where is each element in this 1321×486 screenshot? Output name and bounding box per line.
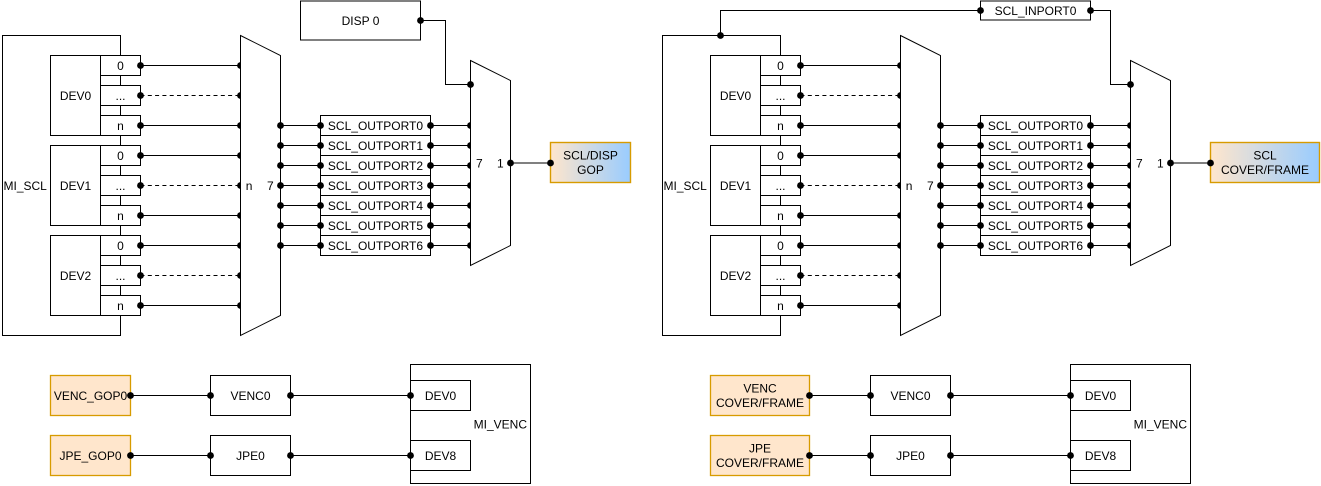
- wire MUX1 to SCL_OUTPORT4 (R): [937, 202, 984, 209]
- svg-text:SCL_OUTPORT4: SCL_OUTPORT4: [328, 199, 423, 213]
- wire SCL_OUTPORT2 to MUX2 (L): [427, 162, 474, 169]
- wire SCL_OUTPORT4 to MUX2 (R): [1087, 202, 1134, 209]
- port DEV0.... (L): [101, 86, 141, 106]
- wire DEV1.... to MUX1 (L): [137, 182, 244, 189]
- block DEV1 (R): [711, 146, 761, 226]
- block SCL_OUTPORT2 (R): [981, 156, 1091, 176]
- block SCL_OUTPORT2 (L): [321, 156, 431, 176]
- svg-text:7: 7: [1136, 156, 1143, 170]
- block VENC0 (R): [871, 376, 951, 416]
- svg-text:1: 1: [1157, 156, 1164, 170]
- wire DEV0.... to MUX1 (L): [137, 92, 244, 99]
- port DEV2.0 (L): [101, 236, 141, 256]
- block SCL_OUTPORT1 (L): [321, 136, 431, 156]
- wire MUX1 to SCL_OUTPORT3 (L): [277, 182, 324, 189]
- wire MUX1 to SCL_OUTPORT1 (L): [277, 142, 324, 149]
- svg-text:DEV8: DEV8: [425, 449, 457, 463]
- svg-text:7: 7: [267, 179, 274, 193]
- block SCL_OUTPORT6 (R): [981, 236, 1091, 256]
- wire DEV2.... to MUX1 (R): [797, 272, 904, 279]
- svg-text:SCL_OUTPORT2: SCL_OUTPORT2: [328, 159, 423, 173]
- block MI_VENC DEV0 (R): [1071, 381, 1131, 411]
- port DEV1.0 (R): [761, 146, 801, 166]
- svg-text:0: 0: [777, 59, 784, 73]
- svg-text:...: ...: [775, 269, 785, 283]
- input box VENC_GOP0: [51, 376, 131, 416]
- wire VENC0 to DEV0 (L): [287, 392, 414, 399]
- port DEV1.n (L): [101, 206, 141, 226]
- svg-text:...: ...: [115, 179, 125, 193]
- svg-text:SCL_OUTPORT6: SCL_OUTPORT6: [988, 239, 1083, 253]
- svg-text:...: ...: [775, 179, 785, 193]
- port DEV2.0 (R): [761, 236, 801, 256]
- block MI_VENC DEV8 (R): [1071, 441, 1131, 471]
- svg-text:SCL_OUTPORT0: SCL_OUTPORT0: [988, 119, 1083, 133]
- input box VENC COVER/FRAME: [711, 376, 810, 416]
- svg-text:SCL_OUTPORT0: SCL_OUTPORT0: [328, 119, 423, 133]
- svg-text:JPE: JPE: [749, 442, 771, 456]
- svg-text:SCL_OUTPORT2: SCL_OUTPORT2: [988, 159, 1083, 173]
- wire MUX2 to SCL/DISP GOP: [507, 160, 554, 167]
- output box SCL/DISP GOP: [551, 143, 631, 183]
- svg-text:n: n: [906, 179, 913, 193]
- wire DEV2.n to MUX1 (L): [137, 302, 244, 309]
- block SCL_INPORT0: [981, 1, 1091, 20]
- wire DEV0.n to MUX1 (R): [797, 122, 904, 129]
- svg-text:SCL_OUTPORT3: SCL_OUTPORT3: [988, 179, 1083, 193]
- svg-text:n: n: [777, 209, 784, 223]
- wire MUX1 to SCL_OUTPORT6 (R): [937, 242, 984, 249]
- wire DISP 0 to MUX2: [417, 17, 474, 88]
- svg-text:DEV0: DEV0: [425, 389, 457, 403]
- wire SCL_OUTPORT6 to MUX2 (L): [427, 242, 474, 249]
- wire MUX2 to SCL COVER/FRAME: [1167, 160, 1214, 167]
- port DEV2.... (L): [101, 266, 141, 286]
- block SCL_OUTPORT0 (L): [321, 116, 431, 136]
- wire VENC input to VENC0 (R): [806, 392, 874, 399]
- svg-text:n: n: [117, 299, 124, 313]
- block JPE0 (R): [871, 436, 951, 476]
- wire DEV0.0 to MUX1 (R): [797, 62, 904, 69]
- wire SCL_OUTPORT1 to MUX2 (L): [427, 142, 474, 149]
- block VENC0 (L): [211, 376, 291, 416]
- port DEV0.0 (L): [101, 56, 141, 76]
- wire DEV1.n to MUX1 (L): [137, 212, 244, 219]
- wire MUX1 to SCL_OUTPORT2 (R): [937, 162, 984, 169]
- wire SCL_OUTPORT3 to MUX2 (L): [427, 182, 474, 189]
- wire JPE0 to DEV8 (R): [947, 452, 1074, 459]
- block SCL_OUTPORT6 (L): [321, 236, 431, 256]
- svg-text:SCL_OUTPORT3: SCL_OUTPORT3: [328, 179, 423, 193]
- svg-text:DEV1: DEV1: [60, 179, 92, 193]
- svg-text:n: n: [777, 119, 784, 133]
- svg-text:JPE_GOP0: JPE_GOP0: [59, 449, 121, 463]
- block DEV2 (L): [51, 236, 101, 316]
- block SCL_OUTPORT5 (R): [981, 216, 1091, 236]
- block SCL_OUTPORT1 (R): [981, 136, 1091, 156]
- wire DEV1.n to MUX1 (R): [797, 212, 904, 219]
- svg-text:0: 0: [117, 59, 124, 73]
- block SCL_OUTPORT4 (R): [981, 196, 1091, 216]
- svg-text:SCL_OUTPORT4: SCL_OUTPORT4: [988, 199, 1083, 213]
- wire VENC0 to DEV0 (R): [947, 392, 1074, 399]
- svg-text:DEV8: DEV8: [1085, 449, 1117, 463]
- wire MUX1 to SCL_OUTPORT6 (L): [277, 242, 324, 249]
- block SCL_OUTPORT4 (L): [321, 196, 431, 216]
- wire SCL_OUTPORT2 to MUX2 (R): [1087, 162, 1134, 169]
- svg-text:DEV0: DEV0: [60, 89, 92, 103]
- svg-text:MI_VENC: MI_VENC: [474, 417, 528, 431]
- wire SCL_OUTPORT0 to MUX2 (L): [427, 122, 474, 129]
- svg-text:SCL: SCL: [1253, 149, 1277, 163]
- svg-text:MI_SCL: MI_SCL: [4, 179, 48, 193]
- port DEV1.... (L): [101, 176, 141, 196]
- svg-text:DEV1: DEV1: [720, 179, 752, 193]
- mux MUX1 n:7 (R): [901, 36, 941, 336]
- block DEV2 (R): [711, 236, 761, 316]
- block SCL_OUTPORT3 (R): [981, 176, 1091, 196]
- wire SCL_OUTPORT4 to MUX2 (L): [427, 202, 474, 209]
- wire JPE input to JPE0 (R): [806, 452, 874, 459]
- port DEV0.n (L): [101, 116, 141, 136]
- block DEV0 (R): [711, 56, 761, 136]
- svg-text:n: n: [117, 119, 124, 133]
- svg-text:...: ...: [115, 89, 125, 103]
- svg-text:GOP: GOP: [577, 163, 604, 177]
- input box JPE COVER/FRAME: [711, 436, 810, 476]
- wire DEV0.0 to MUX1 (L): [137, 62, 244, 69]
- port DEV0.0 (R): [761, 56, 801, 76]
- output box SCL COVER/FRAME: [1211, 143, 1320, 183]
- wire SCL_OUTPORT3 to MUX2 (R): [1087, 182, 1134, 189]
- svg-text:0: 0: [777, 239, 784, 253]
- wire MUX1 to SCL_OUTPORT4 (L): [277, 202, 324, 209]
- wire DEV2.... to MUX1 (L): [137, 272, 244, 279]
- port DEV2.n (L): [101, 296, 141, 316]
- MI_VENC container box (L): [411, 365, 531, 484]
- svg-text:...: ...: [775, 89, 785, 103]
- wire DEV1.0 to MUX1 (R): [797, 152, 904, 159]
- block SCL_OUTPORT5 (L): [321, 216, 431, 236]
- svg-text:SCL_OUTPORT1: SCL_OUTPORT1: [328, 139, 423, 153]
- svg-text:0: 0: [777, 149, 784, 163]
- wire MUX1 to SCL_OUTPORT0 (R): [937, 122, 984, 129]
- wire JPE input to JPE0 (L): [127, 452, 214, 459]
- input box JPE_GOP0: [51, 436, 131, 476]
- wire DEV2.n to MUX1 (R): [797, 302, 904, 309]
- MI_VENC container box (R): [1071, 365, 1191, 484]
- wire SCL_OUTPORT1 to MUX2 (R): [1087, 142, 1134, 149]
- wire MUX1 to SCL_OUTPORT5 (L): [277, 222, 324, 229]
- wire MUX1 to SCL_OUTPORT0 (L): [277, 122, 324, 129]
- MI_SCL container box (L): [3, 36, 121, 336]
- svg-text:VENC_GOP0: VENC_GOP0: [54, 389, 128, 403]
- wire DEV1.... to MUX1 (R): [797, 182, 904, 189]
- wire DEV2.0 to MUX1 (R): [797, 242, 904, 249]
- svg-text:COVER/FRAME: COVER/FRAME: [1221, 163, 1309, 177]
- svg-text:0: 0: [117, 149, 124, 163]
- port DEV1.0 (L): [101, 146, 141, 166]
- svg-text:COVER/FRAME: COVER/FRAME: [716, 396, 804, 410]
- mux MUX1 n:7 (L): [241, 36, 281, 336]
- wire MUX1 to SCL_OUTPORT3 (R): [937, 182, 984, 189]
- block MI_VENC DEV8 (L): [411, 441, 471, 471]
- svg-text:SCL_INPORT0: SCL_INPORT0: [995, 4, 1077, 18]
- svg-text:MI_SCL: MI_SCL: [664, 179, 708, 193]
- wire JPE0 to DEV8 (L): [287, 452, 414, 459]
- block SCL_OUTPORT3 (L): [321, 176, 431, 196]
- svg-text:DEV0: DEV0: [1085, 389, 1117, 403]
- port DEV1.n (R): [761, 206, 801, 226]
- svg-text:VENC0: VENC0: [890, 389, 930, 403]
- wire DEV0.... to MUX1 (R): [797, 92, 904, 99]
- svg-text:DEV0: DEV0: [720, 89, 752, 103]
- svg-text:VENC0: VENC0: [230, 389, 270, 403]
- wire DEV2.0 to MUX1 (L): [137, 242, 244, 249]
- svg-text:SCL/DISP: SCL/DISP: [563, 149, 618, 163]
- svg-text:SCL_OUTPORT1: SCL_OUTPORT1: [988, 139, 1083, 153]
- wire MUX1 to SCL_OUTPORT1 (R): [937, 142, 984, 149]
- block DEV0 (L): [51, 56, 101, 136]
- wire SCL_OUTPORT5 to MUX2 (R): [1087, 222, 1134, 229]
- port DEV1.... (R): [761, 176, 801, 196]
- wire SCL_OUTPORT5 to MUX2 (L): [427, 222, 474, 229]
- svg-text:DISP 0: DISP 0: [342, 14, 380, 28]
- svg-text:7: 7: [927, 179, 934, 193]
- wire DEV0.n to MUX1 (L): [137, 122, 244, 129]
- wire SCL_INPORT0 to MI_SCL: [717, 7, 984, 39]
- svg-text:SCL_OUTPORT6: SCL_OUTPORT6: [328, 239, 423, 253]
- port DEV0.n (R): [761, 116, 801, 136]
- svg-text:JPE0: JPE0: [896, 449, 925, 463]
- block JPE0 (L): [211, 436, 291, 476]
- svg-text:1: 1: [497, 156, 504, 170]
- wire MUX1 to SCL_OUTPORT5 (R): [937, 222, 984, 229]
- mux MUX2 8:1 (R): [1131, 61, 1171, 266]
- svg-text:7: 7: [476, 156, 483, 170]
- svg-text:JPE0: JPE0: [236, 449, 265, 463]
- mux MUX2 8:1 (L): [471, 61, 511, 266]
- wire MUX1 to SCL_OUTPORT2 (L): [277, 162, 324, 169]
- wire VENC input to VENC0 (L): [127, 392, 214, 399]
- svg-text:...: ...: [115, 269, 125, 283]
- wire SCL_OUTPORT0 to MUX2 (R): [1087, 122, 1134, 129]
- wire SCL_OUTPORT6 to MUX2 (R): [1087, 242, 1134, 249]
- svg-text:DEV2: DEV2: [720, 269, 752, 283]
- svg-text:MI_VENC: MI_VENC: [1134, 417, 1188, 431]
- port DEV2.n (R): [761, 296, 801, 316]
- svg-text:0: 0: [117, 239, 124, 253]
- svg-text:SCL_OUTPORT5: SCL_OUTPORT5: [988, 219, 1083, 233]
- svg-text:VENC: VENC: [743, 382, 777, 396]
- svg-text:SCL_OUTPORT5: SCL_OUTPORT5: [328, 219, 423, 233]
- block SCL_OUTPORT0 (R): [981, 116, 1091, 136]
- port DEV0.... (R): [761, 86, 801, 106]
- svg-text:COVER/FRAME: COVER/FRAME: [716, 456, 804, 470]
- svg-text:n: n: [117, 209, 124, 223]
- block DEV1 (L): [51, 146, 101, 226]
- svg-text:n: n: [246, 179, 253, 193]
- block DISP 0: [301, 1, 421, 40]
- MI_SCL container box (R): [663, 36, 781, 336]
- wire SCL_INPORT0 to MUX2: [1087, 7, 1134, 88]
- wire DEV1.0 to MUX1 (L): [137, 152, 244, 159]
- svg-text:n: n: [777, 299, 784, 313]
- block MI_VENC DEV0 (L): [411, 381, 471, 411]
- port DEV2.... (R): [761, 266, 801, 286]
- svg-text:DEV2: DEV2: [60, 269, 92, 283]
